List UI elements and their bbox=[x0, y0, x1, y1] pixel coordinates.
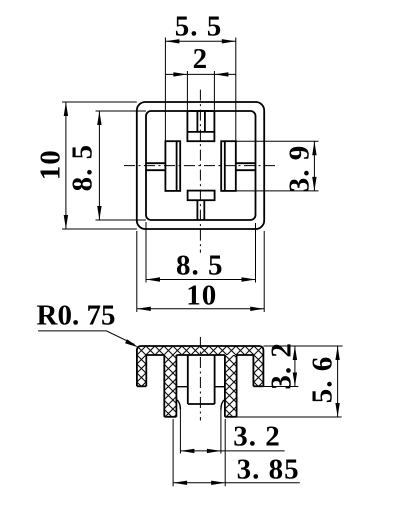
svg-text:3. 9: 3. 9 bbox=[284, 145, 316, 193]
hatched left skirt bbox=[137, 355, 146, 386]
dimension 8.5 (bottom) bbox=[146, 222, 256, 283]
svg-text:3. 85: 3. 85 bbox=[237, 453, 300, 485]
right stem fillet bbox=[221, 399, 225, 409]
left skirt bottom bbox=[137, 355, 146, 386]
arm bottom edges bbox=[176, 386, 225, 388]
svg-text:5. 5: 5. 5 bbox=[175, 11, 223, 43]
plate underside bbox=[146, 354, 253, 356]
dimension 10 (bottom) bbox=[137, 231, 264, 312]
left cross arm slot bbox=[146, 163, 165, 170]
dimension 5.6 (section right) bbox=[237, 346, 342, 417]
left boss wall bbox=[165, 141, 180, 191]
dimension 3.9 (right) bbox=[236, 141, 319, 192]
dimension 2 (top) bbox=[165, 43, 235, 111]
bottom stem slot bbox=[197, 200, 204, 220]
hatched right skirt bbox=[253, 355, 263, 386]
hatched left column bbox=[164, 355, 176, 417]
vertical centerline bbox=[199, 90, 201, 253]
dimension 3.2 (section bottom) bbox=[180, 410, 284, 454]
right column bbox=[225, 355, 237, 417]
dimension 5.5 (top) bbox=[165, 11, 235, 142]
left stem fillet bbox=[176, 399, 180, 409]
dimension 3.85 (section bottom) bbox=[173, 419, 300, 486]
bottom bar bbox=[188, 191, 215, 201]
right skirt bottom bbox=[253, 355, 263, 386]
svg-text:10: 10 bbox=[35, 149, 67, 180]
svg-text:8. 5: 8. 5 bbox=[67, 144, 99, 192]
horizontal centerline bbox=[124, 165, 277, 167]
section centerline bbox=[199, 337, 201, 421]
hatched right column bbox=[225, 355, 237, 417]
svg-text:R0. 75: R0. 75 bbox=[37, 299, 116, 331]
plate top outline bbox=[137, 346, 264, 386]
center hole bbox=[188, 355, 215, 404]
svg-text:2: 2 bbox=[193, 43, 209, 75]
svg-text:10: 10 bbox=[186, 280, 217, 312]
label R0.75 with leader bbox=[37, 299, 140, 349]
dimension 3.2 (section right) bbox=[263, 342, 342, 390]
svg-text:3. 2: 3. 2 bbox=[266, 342, 298, 390]
inner square (8.5x8.5 skirt inner edge) bbox=[146, 111, 256, 220]
outer square (10x10 cap outline) bbox=[137, 102, 264, 229]
top slot bbox=[197, 111, 205, 132]
svg-text:8. 5: 8. 5 bbox=[176, 250, 224, 282]
top boss box bbox=[187, 111, 214, 141]
right boss wall bbox=[221, 141, 236, 191]
svg-text:3. 2: 3. 2 bbox=[233, 420, 281, 452]
right cross arm slot bbox=[236, 163, 256, 170]
left column bbox=[164, 355, 176, 417]
dimension 8.5 (left) bbox=[67, 111, 147, 220]
dimension 10 (left) bbox=[35, 102, 137, 229]
hatched plate band bbox=[137, 346, 264, 355]
svg-text:5. 6: 5. 6 bbox=[307, 356, 339, 404]
